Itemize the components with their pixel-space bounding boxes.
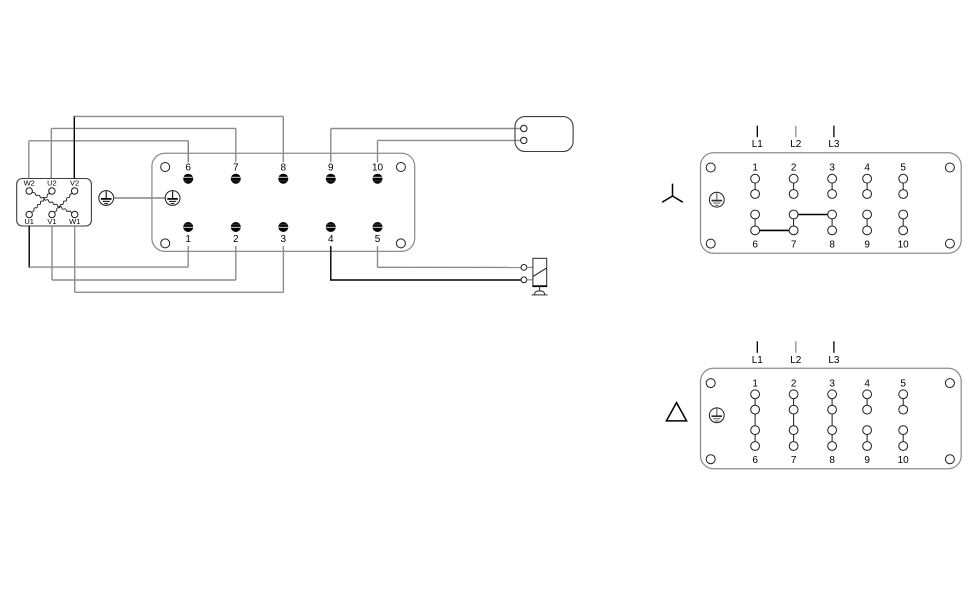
svg-text:7: 7 bbox=[233, 162, 239, 173]
terminal pin col1 row1 (star) bbox=[751, 174, 760, 183]
terminal pin col3 row3 (star) bbox=[828, 210, 837, 219]
svg-text:L2: L2 bbox=[790, 139, 802, 150]
supply line L2 (delta) bbox=[790, 341, 802, 366]
link terminal pins col 2/7 (star) bbox=[793, 179, 795, 194]
wire terminal 5 drop bbox=[377, 246, 379, 267]
svg-text:5: 5 bbox=[900, 163, 906, 174]
svg-text:2: 2 bbox=[791, 163, 797, 174]
svg-text:W2: W2 bbox=[24, 179, 35, 188]
link terminal pins col 1/6 (delta) bbox=[754, 430, 756, 446]
terminal pin col3 row3 (delta) bbox=[828, 426, 837, 435]
terminal pin col5 row3 (star) bbox=[899, 210, 908, 219]
terminal pin col3 row2 (delta) bbox=[828, 405, 837, 414]
supply line L2 (star) bbox=[790, 126, 802, 151]
wire drop into terminal 7 bbox=[235, 128, 237, 162]
svg-text:4: 4 bbox=[328, 234, 334, 245]
motor terminal V2 bbox=[70, 179, 79, 195]
terminal board (delta connection) bbox=[701, 368, 962, 469]
supply line L3 (star) bbox=[828, 126, 840, 151]
svg-text:7: 7 bbox=[791, 455, 797, 466]
svg-text:6: 6 bbox=[752, 455, 758, 466]
plug pin 1 bbox=[521, 125, 527, 131]
svg-text:9: 9 bbox=[864, 239, 870, 250]
link terminal pins col 3/8 (delta) bbox=[831, 430, 833, 446]
diaphragm actuator bbox=[532, 291, 548, 295]
svg-text:L2: L2 bbox=[790, 355, 802, 366]
svg-text:L1: L1 bbox=[752, 139, 764, 150]
link terminal pins col 1/6 (delta) bbox=[754, 410, 756, 431]
svg-text:L1: L1 bbox=[752, 355, 764, 366]
wire V2 lead up (black) bbox=[73, 116, 75, 179]
terminal pin col4 row1 (delta) bbox=[863, 390, 872, 399]
terminal pin col1 row3 (delta) bbox=[751, 426, 760, 435]
winding W1-W2 bbox=[32, 193, 71, 213]
wire terminal 10 rise bbox=[377, 140, 379, 162]
link terminal pins col 2/7 (delta) bbox=[793, 430, 795, 446]
svg-text:2: 2 bbox=[233, 234, 239, 245]
wire terminal 4 to switch lower contact (black) bbox=[330, 279, 521, 281]
link terminal pins col 2/7 (delta) bbox=[793, 394, 795, 409]
terminal pin col5 row2 (star) bbox=[899, 190, 908, 199]
terminal board mounting hole bottom-left bbox=[161, 239, 170, 248]
switch changeover blade bbox=[533, 268, 547, 277]
wire terminal 9 to plug pin 1 bbox=[331, 128, 521, 130]
svg-text:2: 2 bbox=[791, 378, 797, 389]
motor terminal U1 bbox=[24, 211, 34, 226]
svg-text:6: 6 bbox=[752, 239, 758, 250]
jumper bridge 6-7 bbox=[755, 229, 794, 231]
wire W1 to terminal 3 horizontal bbox=[75, 291, 284, 293]
ground symbol PE (terminal board) bbox=[165, 191, 180, 206]
terminal screw 3 bbox=[278, 222, 288, 245]
terminal pin col1 row2 (star) bbox=[751, 190, 760, 199]
svg-text:7: 7 bbox=[791, 239, 797, 250]
wire drop into terminal 6 bbox=[187, 141, 189, 163]
wire drop into terminal 8 bbox=[282, 116, 284, 162]
terminal screw 9 bbox=[326, 162, 336, 183]
link terminal pins col 4/9 (delta) bbox=[866, 430, 868, 446]
mounting hole top-right (delta) bbox=[945, 379, 954, 388]
terminal pin col2 row2 (star) bbox=[789, 190, 798, 199]
terminal pin col2 row3 (star) bbox=[789, 210, 798, 219]
terminal pin col4 row4 (delta) bbox=[863, 442, 872, 451]
switch actuator stem bbox=[539, 286, 541, 291]
svg-text:W1: W1 bbox=[69, 217, 80, 226]
link terminal pins col 1/6 (star) bbox=[754, 179, 756, 194]
svg-text:3: 3 bbox=[829, 163, 835, 174]
link terminal pins col 4/9 (star) bbox=[866, 179, 868, 194]
svg-text:10: 10 bbox=[898, 239, 910, 250]
wire terminal 10 to plug pin 2 bbox=[378, 139, 521, 141]
svg-text:8: 8 bbox=[281, 162, 287, 173]
terminal screw 1 bbox=[183, 222, 193, 245]
terminal pin col1 row3 (star) bbox=[751, 210, 760, 219]
wire U2 lead up bbox=[50, 128, 52, 178]
terminal screw 10 bbox=[372, 162, 384, 183]
svg-text:5: 5 bbox=[375, 234, 381, 245]
terminal screw 5 bbox=[373, 222, 383, 245]
link terminal pins col 3/8 (star) bbox=[831, 179, 833, 194]
winding V1-V2 bbox=[54, 194, 72, 213]
ground symbol PE (motor side) bbox=[99, 191, 114, 206]
wire terminal 4 drop (black) bbox=[330, 246, 332, 280]
svg-text:4: 4 bbox=[864, 163, 870, 174]
link terminal pins col 5/10 (star) bbox=[902, 179, 904, 194]
svg-text:10: 10 bbox=[372, 162, 384, 173]
mounting hole bottom-right (delta) bbox=[945, 455, 954, 464]
terminal pin col1 row1 (delta) bbox=[751, 390, 760, 399]
terminal pin col5 row4 (star) bbox=[899, 226, 908, 235]
supply line L1 (star) bbox=[752, 126, 764, 151]
wire V1 lead down bbox=[51, 226, 53, 280]
svg-text:3: 3 bbox=[281, 234, 287, 245]
terminal board (star connection) bbox=[701, 153, 962, 254]
motor terminal U2 bbox=[47, 179, 57, 195]
svg-text:V1: V1 bbox=[47, 217, 56, 226]
terminal pin col2 row3 (delta) bbox=[789, 426, 798, 435]
svg-text:L3: L3 bbox=[828, 355, 840, 366]
terminal pin col4 row4 (star) bbox=[863, 226, 872, 235]
wire terminal 5 to switch upper contact bbox=[378, 266, 522, 268]
terminal screw 7 bbox=[231, 162, 241, 183]
link terminal pins col 3/8 (star) bbox=[831, 215, 833, 231]
mounting hole bottom-right (star) bbox=[945, 239, 954, 248]
svg-text:3: 3 bbox=[829, 378, 835, 389]
link terminal pins col 2/7 (star) bbox=[793, 215, 795, 231]
wire rise from terminal 1 bbox=[187, 246, 189, 267]
link terminal pins col 3/8 (delta) bbox=[831, 394, 833, 409]
delta connection symbol bbox=[666, 403, 686, 421]
motor terminal W1 bbox=[69, 211, 80, 226]
svg-text:1: 1 bbox=[185, 234, 191, 245]
terminal pin col3 row2 (star) bbox=[828, 190, 837, 199]
svg-text:V2: V2 bbox=[70, 179, 79, 188]
terminal pin col1 row4 (star) bbox=[751, 226, 760, 235]
terminal screw 6 bbox=[183, 162, 193, 183]
wire W2 to terminal 6 horizontal bbox=[29, 140, 188, 142]
mounting hole bottom-left (delta) bbox=[706, 455, 715, 464]
svg-text:9: 9 bbox=[328, 162, 334, 173]
star connection symbol bbox=[662, 184, 683, 203]
terminal pin col1 row4 (delta) bbox=[751, 442, 760, 451]
switch contact upper bbox=[521, 265, 533, 271]
terminal pin col4 row2 (delta) bbox=[863, 405, 872, 414]
motor winding box M1 bbox=[17, 179, 92, 227]
svg-text:1: 1 bbox=[752, 163, 758, 174]
terminal pin col4 row2 (star) bbox=[863, 190, 872, 199]
wire U1 lead down (black) bbox=[28, 226, 30, 268]
mounting hole top-left (delta) bbox=[706, 379, 715, 388]
supply line L3 (delta) bbox=[828, 341, 840, 366]
wire rise from terminal 3 bbox=[282, 246, 284, 292]
terminal pin col2 row4 (star) bbox=[789, 226, 798, 235]
motor terminal W2 bbox=[24, 179, 35, 195]
mounting hole top-left (star) bbox=[706, 163, 715, 172]
terminal pin col2 row4 (delta) bbox=[789, 442, 798, 451]
terminal pin col1 row2 (delta) bbox=[751, 405, 760, 414]
wire rise from terminal 2 bbox=[235, 246, 237, 280]
plug pin 2 bbox=[521, 137, 527, 143]
terminal pin col5 row1 (star) bbox=[899, 174, 908, 183]
terminal pin col3 row1 (delta) bbox=[828, 390, 837, 399]
terminal board mounting hole bottom-right bbox=[396, 239, 405, 248]
terminal pin col5 row3 (delta) bbox=[899, 426, 908, 435]
ground symbol PE (star board) bbox=[709, 192, 724, 207]
mounting hole bottom-left (star) bbox=[706, 239, 715, 248]
terminal pin col5 row1 (delta) bbox=[899, 390, 908, 399]
terminal pin col5 row4 (delta) bbox=[899, 442, 908, 451]
svg-text:8: 8 bbox=[829, 455, 835, 466]
svg-text:1: 1 bbox=[752, 378, 758, 389]
jumper bridge 7-8 bbox=[794, 214, 833, 216]
terminal pin col4 row3 (delta) bbox=[863, 426, 872, 435]
link terminal pins col 3/8 (delta) bbox=[831, 410, 833, 431]
terminal pin col3 row4 (delta) bbox=[828, 442, 837, 451]
svg-text:8: 8 bbox=[829, 239, 835, 250]
terminal board mounting hole top-right bbox=[396, 163, 405, 172]
switch contact lower bbox=[521, 277, 533, 283]
link terminal pins col 5/10 (star) bbox=[902, 215, 904, 231]
terminal screw 4 bbox=[326, 222, 336, 245]
svg-text:6: 6 bbox=[185, 162, 191, 173]
ground symbol PE (delta board) bbox=[709, 408, 724, 423]
terminal pin col3 row4 (star) bbox=[828, 226, 837, 235]
wire PE link bbox=[114, 197, 166, 199]
svg-text:U1: U1 bbox=[24, 217, 34, 226]
supply line L1 (delta) bbox=[752, 341, 764, 366]
wire V2 to terminal 8 horizontal bbox=[74, 115, 283, 117]
motor terminal V1 bbox=[47, 211, 56, 226]
wire V1 to terminal 2 horizontal bbox=[52, 279, 236, 281]
terminal pin col2 row2 (delta) bbox=[789, 405, 798, 414]
wire W1 lead down bbox=[74, 226, 76, 292]
link terminal pins col 4/9 (delta) bbox=[866, 394, 868, 409]
terminal pin col2 row1 (star) bbox=[789, 174, 798, 183]
svg-text:10: 10 bbox=[898, 455, 910, 466]
terminal pin col2 row1 (delta) bbox=[789, 390, 798, 399]
wire W2 lead up bbox=[28, 141, 30, 179]
terminal board mounting hole top-left bbox=[161, 163, 170, 172]
link terminal pins col 2/7 (delta) bbox=[793, 410, 795, 431]
terminal pin col4 row1 (star) bbox=[863, 174, 872, 183]
link terminal pins col 1/6 (star) bbox=[754, 215, 756, 231]
terminal screw 2 bbox=[231, 222, 241, 245]
wire U1 to terminal 1 horizontal bbox=[29, 266, 188, 268]
link terminal pins col 4/9 (star) bbox=[866, 215, 868, 231]
svg-text:4: 4 bbox=[864, 378, 870, 389]
svg-text:5: 5 bbox=[900, 378, 906, 389]
svg-text:L3: L3 bbox=[828, 139, 840, 150]
wire U2 to terminal 7 horizontal bbox=[51, 127, 236, 129]
terminal pin col5 row2 (delta) bbox=[899, 405, 908, 414]
svg-text:U2: U2 bbox=[47, 179, 57, 188]
sensor plug connector P1 bbox=[515, 117, 573, 152]
terminal pin col3 row1 (star) bbox=[828, 174, 837, 183]
link terminal pins col 5/10 (delta) bbox=[902, 394, 904, 409]
link terminal pins col 1/6 (delta) bbox=[754, 394, 756, 409]
svg-text:9: 9 bbox=[864, 455, 870, 466]
winding U1-U2 bbox=[32, 193, 50, 212]
terminal screw 8 bbox=[278, 162, 288, 183]
terminal pin col4 row3 (star) bbox=[863, 210, 872, 219]
link terminal pins col 5/10 (delta) bbox=[902, 430, 904, 446]
terminal board X1 bbox=[152, 153, 415, 251]
mounting hole top-right (star) bbox=[945, 163, 954, 172]
pressure switch S1 body bbox=[532, 258, 547, 286]
wire terminal 9 rise bbox=[330, 129, 332, 163]
